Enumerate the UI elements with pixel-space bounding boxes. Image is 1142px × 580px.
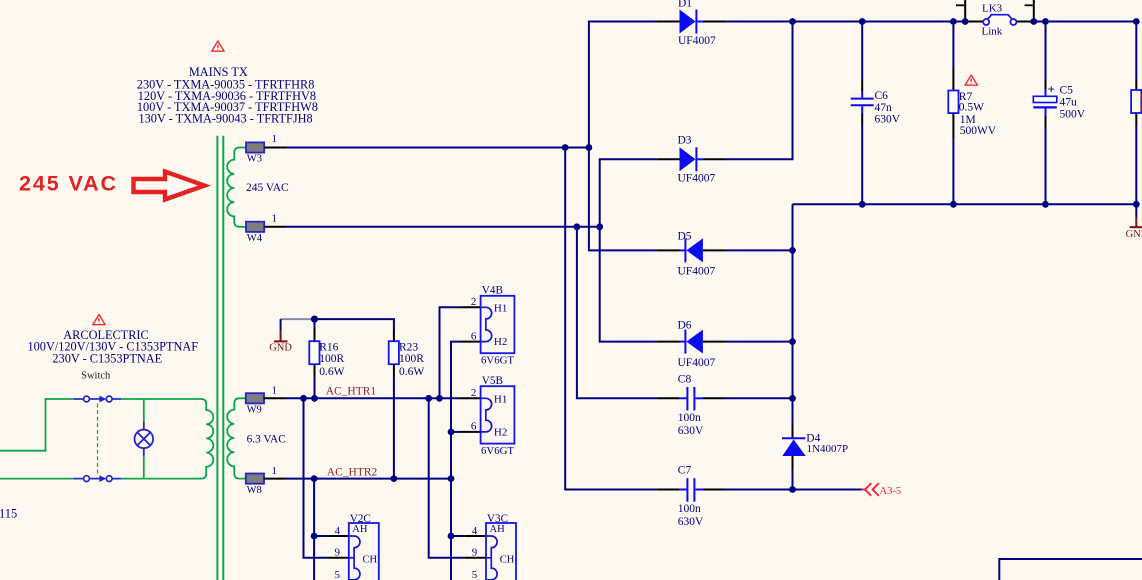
svg-text:4: 4 (472, 525, 478, 537)
terminal W3 (246, 142, 264, 152)
diode D6 (658, 330, 725, 354)
wire V3C pin9 lead (464, 557, 486, 559)
winding W3-W4 (245 VAC secondary) (227, 148, 246, 227)
wire V5B pin6 stub (451, 431, 459, 433)
capacitor C8 (658, 387, 724, 411)
transformer TX core (217, 136, 223, 580)
svg-text:Link: Link (982, 26, 1003, 38)
svg-text:6V6GT: 6V6GT (481, 355, 514, 367)
V4B heater element (481, 307, 492, 341)
svg-text:V3C: V3C (487, 513, 508, 525)
wire V2C pin9 riser (304, 398, 328, 558)
svg-text:500V: 500V (1060, 108, 1086, 120)
sheet box corner (bottom right) (999, 559, 1142, 580)
svg-text:500WV: 500WV (960, 125, 997, 137)
wire vertical D3-D6 bus (600, 159, 658, 341)
svg-text:1: 1 (272, 212, 278, 224)
svg-text:AC_HTR2: AC_HTR2 (327, 467, 378, 479)
wire C8 to bus (724, 397, 793, 399)
ground symbol GND (right) (1126, 204, 1142, 240)
wire W8 pin lead (264, 478, 285, 480)
terminal W9 (246, 393, 264, 403)
tick mark (right stub) (1025, 4, 1033, 6)
V3C pin9 stub (486, 557, 491, 559)
wire W3 pin lead (264, 147, 286, 149)
svg-text:D6: D6 (678, 319, 692, 331)
capacitor C7 (658, 478, 724, 502)
svg-text:5: 5 (335, 569, 341, 580)
tube V2C box (349, 523, 379, 580)
svg-text:1N4007P: 1N4007P (807, 443, 849, 455)
svg-text:630V: 630V (875, 113, 901, 125)
wire mains top (green) (0, 399, 202, 479)
wire D1 output to rail (725, 21, 965, 23)
annotation red block arrow (134, 172, 205, 200)
svg-text:0.5W: 0.5W (959, 101, 984, 113)
svg-text:2: 2 (471, 296, 477, 308)
svg-text:UF4007: UF4007 (678, 173, 716, 185)
wire V2C pin4 stub (314, 535, 327, 537)
tick mark (left stub) (956, 4, 964, 6)
svg-text:1: 1 (272, 384, 278, 396)
wire V4B pin2 lead (459, 306, 481, 308)
svg-text:6: 6 (471, 330, 477, 342)
svg-text:AH: AH (352, 524, 368, 535)
switch SW bottom pole (74, 475, 121, 482)
warning triangle (MAINS TX) (212, 41, 224, 51)
svg-text:9: 9 (335, 547, 341, 559)
wire V4B pin6 lead (459, 341, 481, 343)
wire W3 net to rectifier (286, 147, 589, 149)
svg-text:+: + (1048, 82, 1055, 97)
svg-text:100R: 100R (319, 353, 344, 365)
switch SW top pole (74, 396, 121, 403)
wire W4 pin lead (264, 226, 286, 228)
stub above rail (left) (964, 0, 966, 22)
net AC_HTR2 wire (285, 478, 451, 480)
svg-text:GND: GND (1126, 229, 1142, 240)
svg-text:V5B: V5B (482, 375, 503, 387)
wire V3C pin4 stub (451, 535, 464, 537)
svg-text:UF4007: UF4007 (678, 357, 716, 369)
warning triangle (R7) (965, 75, 977, 85)
svg-text:W8: W8 (247, 485, 262, 496)
svg-text:LK3: LK3 (982, 3, 1003, 15)
resistor R23 (389, 331, 399, 479)
svg-text:C6: C6 (875, 90, 889, 102)
terminal W8 (246, 474, 264, 484)
wire V2C pin9 lead (327, 557, 349, 559)
svg-text:0.6W: 0.6W (399, 366, 424, 378)
ground symbol GND (left) (269, 319, 292, 353)
warning triangle (ARCOLECTRIC) (93, 315, 105, 325)
wire V3C pin9 riser (429, 398, 465, 558)
svg-text:D3: D3 (678, 134, 692, 146)
wire D3 output riser (725, 22, 793, 160)
V5B heater element (481, 398, 492, 432)
wire V2C pin4 riser (313, 479, 315, 580)
resistor R7 (948, 22, 958, 205)
svg-text:0.6W: 0.6W (319, 366, 344, 378)
svg-text:245 VAC: 245 VAC (19, 172, 118, 196)
resistor R16 (309, 319, 319, 398)
svg-text:2: 2 (471, 387, 477, 399)
V2C heater element (349, 536, 360, 580)
svg-text:GND: GND (269, 342, 292, 353)
svg-text:100n: 100n (678, 503, 701, 515)
wire C7 to A3-5 (724, 489, 863, 491)
svg-text:UF4007: UF4007 (678, 35, 716, 47)
lamp (neon indicator) (135, 421, 154, 455)
diode D5 (658, 238, 725, 262)
wire D5 output (725, 249, 793, 251)
svg-text:R16: R16 (319, 342, 338, 354)
wire D6 output (725, 341, 793, 343)
svg-text:5: 5 (472, 569, 478, 580)
svg-text:CH: CH (500, 555, 515, 566)
resistor R8 (right edge) (1131, 22, 1142, 205)
svg-text:W4: W4 (247, 233, 263, 244)
svg-text:A3-5: A3-5 (880, 486, 902, 497)
svg-text:47u: 47u (1060, 97, 1078, 109)
svg-text:AH: AH (490, 524, 506, 535)
wire V2C pin4 lead (327, 535, 349, 537)
svg-text:1: 1 (272, 465, 278, 477)
svg-text:130V - TXMA-90043 - TFRTFJH8: 130V - TXMA-90043 - TFRTFJH8 (139, 111, 313, 125)
svg-text:V4B: V4B (482, 285, 503, 297)
tube V3C box (486, 523, 516, 580)
wire W9 pin lead (264, 397, 285, 399)
svg-text:6.3 VAC: 6.3 VAC (247, 433, 286, 445)
svg-text:R23: R23 (399, 342, 418, 354)
wire GND net (gray segment) (281, 318, 315, 320)
wire bottom rail (793, 203, 1137, 205)
svg-text:245 VAC: 245 VAC (246, 182, 289, 194)
tube V5B box (481, 386, 515, 443)
wire W4 net to rectifier (286, 226, 600, 228)
svg-text:100n: 100n (678, 412, 701, 424)
svg-text:H2: H2 (494, 426, 507, 438)
svg-text:H1: H1 (494, 303, 507, 315)
svg-text:9: 9 (472, 547, 478, 559)
svg-text:115: 115 (0, 507, 17, 521)
svg-text:AC_HTR1: AC_HTR1 (326, 386, 377, 398)
terminal W4 (246, 222, 264, 232)
capacitor C5 (electrolytic) (1033, 22, 1057, 205)
net AC_HTR1 wire (285, 397, 459, 399)
svg-text:C8: C8 (678, 373, 692, 385)
svg-text:1: 1 (272, 133, 278, 145)
V3C heater element (486, 536, 497, 580)
wire rail segment to link (965, 21, 983, 23)
diode D4 (782, 425, 806, 470)
svg-text:Switch: Switch (81, 371, 111, 382)
svg-text:H1: H1 (494, 394, 507, 406)
svg-text:230V - C1353PTNAE: 230V - C1353PTNAE (52, 351, 162, 365)
svg-text:C7: C7 (678, 465, 692, 477)
link LK3 (983, 15, 1016, 25)
wire V3C pin4 lead (464, 535, 486, 537)
wire vertical W3 drop to C7 (565, 148, 658, 490)
wire link to rail (1016, 21, 1033, 23)
wire V4B pin2 riser (440, 307, 459, 398)
svg-text:UF4007: UF4007 (678, 266, 716, 278)
svg-text:100R: 100R (399, 353, 424, 365)
winding primary (mains side) (201, 399, 213, 479)
svg-text:6V6GT: 6V6GT (481, 445, 514, 457)
svg-text:H2: H2 (494, 336, 507, 348)
svg-text:47n: 47n (875, 102, 893, 114)
tube V4B box (481, 296, 515, 353)
wire heater bus V4B6-V5B6-HTR2-V3C4 (451, 342, 459, 580)
V2C pin9 stub (349, 557, 354, 559)
off-page connector A3-5 (862, 483, 879, 496)
svg-text:D1: D1 (678, 0, 692, 10)
svg-text:6: 6 (471, 421, 477, 433)
wire V5B pin2 lead (459, 397, 481, 399)
svg-text:C5: C5 (1060, 85, 1074, 97)
winding W9-W8 (6.3 VAC secondary) (227, 398, 246, 478)
capacitor C6 (851, 22, 874, 205)
diode D1 (657, 10, 725, 34)
wire D4 anode to C7 net (792, 470, 794, 490)
svg-text:CH: CH (363, 555, 378, 566)
svg-text:630V: 630V (678, 516, 704, 528)
wire top rail right section (1034, 21, 1137, 23)
wire rectified bus vertical (792, 204, 794, 433)
svg-text:W3: W3 (247, 154, 262, 165)
svg-text:630V: 630V (678, 425, 704, 437)
wire GND net to R23 top (315, 319, 394, 330)
stub above rail (right) (1033, 0, 1035, 22)
svg-text:W9: W9 (247, 405, 262, 416)
svg-text:D5: D5 (678, 231, 692, 243)
wire V5B pin6 lead (459, 431, 481, 433)
svg-text:4: 4 (335, 525, 341, 537)
wire vertical D1-D5 bus (589, 22, 658, 251)
svg-text:V2C: V2C (350, 513, 371, 525)
diode D3 (658, 147, 725, 171)
wire vertical W4 drop to C8 (577, 227, 658, 398)
